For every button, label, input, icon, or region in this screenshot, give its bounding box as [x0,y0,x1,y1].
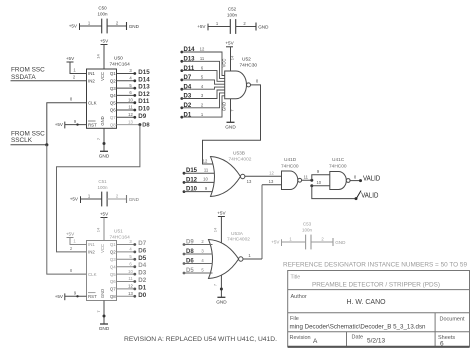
svg-text:U41D: U41D [284,157,297,163]
power +5V for U50 RST [55,122,65,129]
svg-text:RST: RST [88,294,97,299]
wire +5V to U51 IN1 [70,238,87,245]
node D10 [183,187,198,193]
svg-text:11: 11 [204,167,209,172]
power +5V for U51 RST [55,293,65,300]
wire +5V to U50 IN1 [70,62,87,74]
svg-text:U53B: U53B [233,151,245,157]
wire U53B output [245,176,282,184]
node D1 [133,284,146,291]
wire +5V to U51 RST [65,291,87,298]
wire U51 Q1 output [117,244,135,246]
pin 6 of U52 [201,65,204,70]
svg-text:13: 13 [247,179,252,184]
node VALID [359,173,380,182]
node D11 [133,98,149,105]
U50 pin name Q8 [110,122,116,127]
node D12 [133,91,150,98]
svg-text:D5: D5 [138,255,146,262]
pin 3 of U52 [201,93,204,98]
svg-text:10: 10 [128,97,133,102]
node D6 [133,247,146,254]
U51 refdes label [110,229,131,241]
node SSCLK wire [11,143,49,146]
svg-text:74HC164: 74HC164 [110,235,131,241]
power +5V for U50 IN1 [66,56,75,62]
svg-text:U52: U52 [242,57,251,63]
pin 11 of U51 [128,276,133,281]
node D4 [180,84,191,90]
node D13 [180,57,195,63]
svg-text:13: 13 [128,119,133,124]
wire U50 Q5 output [117,102,135,104]
node D14 [180,47,195,53]
svg-text:GND: GND [335,240,346,245]
svg-text:D2: D2 [138,277,146,284]
svg-text:D3: D3 [138,270,146,277]
capacitor C51 [102,192,107,207]
svg-text:D7: D7 [138,240,146,247]
U50 pin name Q7 [110,115,116,120]
wire [107,198,127,200]
svg-text:74HC4002: 74HC4002 [227,237,250,243]
svg-text:D8: D8 [142,122,150,128]
node D14 [133,76,150,83]
node D0 [133,292,146,299]
wire [311,241,333,243]
U50 pin name Q6 [110,108,116,113]
IC U50 74HC164 body [87,69,117,128]
U50 pin name Q1 [110,71,116,76]
pin 5 of U51 [129,254,132,259]
U50 pin name IN2 [88,79,95,84]
svg-text:D0: D0 [138,292,146,299]
U52 VCC pin label [222,59,227,68]
capacitor C53 [306,235,311,250]
svg-text:C52: C52 [228,7,237,12]
svg-text:D4: D4 [138,262,146,269]
wire U53A output [243,253,262,259]
U51 pin name Q1 [110,242,116,247]
wire D1 to U52 pin 1 [182,96,225,117]
wire D9 to U53A pin 2 [184,239,213,245]
svg-text:D9: D9 [138,113,146,120]
title block Sheets label [438,335,455,341]
wire pin 14 VCC U52 [229,47,234,71]
U51 pin name Q7 [110,287,116,292]
node junction 2 [310,184,313,187]
pin 8 label U51 [70,268,73,273]
pin 13 of U51 [128,291,133,296]
wire U51 Q7 output [117,288,135,290]
title block date value [367,338,385,345]
wire [208,26,231,28]
title block Document label [440,317,466,323]
wire U53A GND pin 7 [212,275,223,298]
U50 pin name Q2 [110,79,116,84]
title block title text [312,282,440,289]
wire D8 to U51 IN2 [57,125,140,252]
wire junction to U41C pin 9 [312,169,330,180]
svg-text:12: 12 [200,47,205,52]
wire U51 Q2 output [117,251,135,253]
svg-text:11: 11 [200,56,205,61]
svg-text:6: 6 [440,340,444,347]
svg-text:+5V: +5V [66,232,75,237]
wire SSCLK down to U51 CLK [47,145,87,274]
svg-text:13: 13 [128,291,133,296]
svg-text:Q4: Q4 [110,264,116,269]
pin 11 of U50 [128,105,133,110]
U51 pin name RST [88,293,97,299]
node D5 [183,268,195,274]
svg-text:IN1: IN1 [88,242,95,247]
svg-text:100n: 100n [97,185,108,190]
capacitor C53 label [302,222,313,233]
wire +5V to U50 RST [65,119,87,126]
pin 1 of C52 [216,21,219,26]
svg-text:FROM SSC: FROM SSC [11,67,45,74]
wire U53A output to pin 13 vertical [261,185,263,259]
wire U50 Q2 output [117,80,135,82]
pin 2 of C53 [321,237,324,242]
wire U53A output to U41D pin 13 [262,179,282,185]
power +5V for C50 [69,23,80,30]
svg-text:+5V: +5V [70,197,79,202]
title block revision value [313,338,318,345]
wire U51 Q5 output [117,273,135,275]
ground U50 [99,151,110,158]
wire pin 14 VCC U53A [212,217,221,244]
wire D13 to U52 pin 11 [182,61,225,78]
svg-text:SSDATA: SSDATA [11,74,36,81]
svg-text:14: 14 [212,227,217,232]
U50 VCC pin label [100,72,105,81]
power +5V for U53A VCC [217,211,226,217]
FROM SSC SSDATA label [11,67,45,81]
U50 refdes label [110,56,131,68]
U51 pin name IN2 [88,250,95,255]
node D3 [133,270,146,277]
title block author name [347,299,387,306]
node D7 [180,75,191,81]
wire U52 GND pin 7 [229,99,234,123]
svg-text:10: 10 [203,177,208,182]
pin 1 of C53 [289,237,292,242]
svg-text:Q4: Q4 [110,93,116,98]
svg-text:11: 11 [128,105,133,110]
svg-text:74HC00: 74HC00 [281,164,299,170]
wire [80,25,102,27]
svg-text:10: 10 [128,269,133,274]
wire junction to /VALID [312,186,356,199]
svg-text:12: 12 [128,112,133,117]
wire U51 GND pin 7 [96,301,106,325]
title block Author label [291,294,307,300]
U51 VCC pin label [100,244,105,253]
svg-text:GND: GND [258,24,269,29]
node D13 [133,84,150,91]
pin 10 of U51 [128,269,133,274]
svg-text:Q8: Q8 [110,122,116,127]
svg-text:74HC00: 74HC00 [329,164,347,170]
pin 1 of U52 [201,112,204,117]
wire U50 Q1 output [117,73,135,75]
svg-text:+5V: +5V [225,41,234,46]
pin 1 of C51 [88,194,91,199]
node D7 [133,240,146,247]
pin 12 of U41D [269,170,274,175]
node D1 [180,112,191,118]
svg-text:Q2: Q2 [110,79,116,84]
pin 2 of C50 [116,21,119,26]
U50 pin name RST [88,121,97,127]
svg-text:IN1: IN1 [88,71,95,76]
svg-text:D13: D13 [138,84,150,91]
pin 4 of U50 [129,76,132,81]
pin 11 of U52 [200,56,205,61]
ground U53A [216,297,227,304]
title block Revision label [290,335,311,341]
title block table [288,271,470,347]
svg-text:12: 12 [269,170,274,175]
ground for C52 [256,23,269,31]
wire [282,241,306,243]
U52 refdes label [240,57,258,69]
wire D6 to U53A pin 4 [184,258,213,264]
svg-text:Q5: Q5 [110,100,116,105]
pin 12 of U50 [128,112,133,117]
FROM SSC SSCLK label [11,130,45,144]
gate U53A 74HC4002 body [209,240,244,279]
U51 pin name Q4 [110,264,116,269]
U51 pin name CLK [88,272,97,277]
svg-text:+5V: +5V [271,240,280,245]
pin 2 of C52 [243,21,246,26]
svg-text:Date: Date [352,334,364,340]
title block sheets value [440,340,444,347]
U53B refdes label [229,151,252,163]
wire D2 to U52 pin 2 [182,93,225,108]
node D3 [180,94,191,100]
node D15 [133,69,150,76]
U51 pin name Q2 [110,250,116,255]
node D9 [133,113,146,120]
ground for C50 [127,22,140,30]
wire U41D output [301,174,312,180]
capacitor C50 [102,19,107,34]
wire [236,26,257,28]
text reference designator note [283,262,467,269]
svg-text:U51: U51 [114,229,123,235]
wire U52 output to U53B pin 12 [203,85,261,164]
svg-text:D1: D1 [138,284,146,291]
node D2 [133,277,146,284]
pin 12 of U51 [128,284,133,289]
svg-text:+5V: +5V [217,211,226,216]
svg-text:RST: RST [88,122,97,127]
pin 13 of U50 [128,119,133,124]
svg-text:GND: GND [100,116,105,125]
ground U52 [225,122,236,129]
pin 2 label U51 [70,246,73,251]
svg-text:GND: GND [99,326,110,331]
svg-text:SSCLK: SSCLK [11,137,33,144]
pin 6 of U50 [129,90,132,95]
svg-text:74HC164: 74HC164 [110,62,131,68]
svg-text:Q3: Q3 [110,257,116,262]
node SSDATA wire [11,74,87,81]
svg-text:Q2: Q2 [110,250,116,255]
wire U50 Q3 output [117,87,135,89]
svg-text:Q6: Q6 [110,279,116,284]
svg-text:C53: C53 [303,222,312,227]
svg-text:Document: Document [440,317,466,323]
svg-text:Q1: Q1 [110,242,116,247]
svg-text:100n: 100n [97,12,108,17]
U53A refdes label [227,231,250,243]
svg-text:REVISION A: REPLACED U54 WITH: REVISION A: REPLACED U54 WITH U41C, U41D… [124,336,277,343]
svg-text:12: 12 [128,284,133,289]
svg-text:+5V: +5V [69,24,78,29]
IC U51 74HC164 body [87,241,117,301]
title block Title label [291,275,301,281]
svg-text:Q7: Q7 [110,115,116,120]
pin 6 of U51 [129,261,132,266]
svg-text:GND: GND [100,289,105,298]
pin 5 of U50 [129,83,132,88]
node junction U41D out [310,179,313,182]
pin 4 of U52 [201,84,204,89]
U50 GND pin label [100,116,105,125]
U50 pin name Q4 [110,93,116,98]
pin 3 of U51 [129,239,132,244]
svg-text:D6: D6 [138,247,146,254]
wire U51 Q8 output [117,295,135,297]
U51 pin name Q5 [110,272,116,277]
wire [81,198,102,200]
svg-text:U50: U50 [114,56,123,62]
power +5V for U52 VCC [225,41,234,47]
svg-text:74HC30: 74HC30 [240,63,258,69]
wire U50 Q7 output [117,116,135,118]
gate U53B 74HC4002 body [211,157,245,197]
pin 2 of U52 [201,103,204,108]
svg-text:Q8: Q8 [110,294,116,299]
gate U41C 74HC00 body [330,172,350,190]
capacitor C52 label [227,7,238,18]
node D6 [183,259,195,265]
text revision note [124,336,277,343]
node D9 [183,240,195,246]
title block Date label [352,334,364,340]
pin 12 of U52 [200,47,205,52]
power +5V for C53 [271,239,281,246]
U51 pin name Q8 [110,294,116,299]
ground for C53 [333,238,346,246]
wire U51 Q6 output [117,281,135,283]
node D12 [183,177,198,183]
U50 pin name Q5 [110,100,116,105]
svg-text:100n: 100n [302,228,313,233]
capacitor C50 label [97,6,108,17]
svg-text:+5V: +5V [100,212,109,217]
svg-text:5/2/13: 5/2/13 [367,338,385,345]
svg-text:U41C: U41C [332,157,345,163]
pin 1 of C50 [88,21,91,26]
pin 2 of C51 [116,194,119,199]
svg-text:+5V: +5V [55,294,64,299]
wire pin 14 VCC U50 [96,45,105,70]
wire D4 to U52 pin 4 [182,87,225,89]
svg-text:A: A [313,338,318,345]
node D8 [138,122,150,128]
wire D7 to U52 pin 5 [182,80,225,84]
svg-text:H. W. CANO: H. W. CANO [347,299,387,306]
wire pin 14 VCC U51 [96,218,105,241]
svg-text:14: 14 [96,54,101,59]
op-amp U52 74HC30 gate body [225,71,251,99]
svg-text:VCC: VCC [222,59,227,68]
ground U51 [99,324,110,331]
power +5V for U50 VCC [100,39,109,45]
svg-text:14: 14 [96,227,101,232]
svg-text:CLK: CLK [88,100,97,105]
wire U50 GND pin 7 [96,128,106,151]
wire D3 to U52 pin 3 [182,90,225,99]
pin 3 of U50 [129,68,132,73]
U41C refdes label [329,157,347,170]
svg-text:+5V: +5V [197,24,206,29]
svg-text:GND: GND [99,154,110,159]
svg-text:GND: GND [129,197,140,202]
node /VALID [355,191,379,201]
svg-text:D12: D12 [138,91,150,98]
svg-text:VCC: VCC [100,244,105,253]
svg-text:+5V: +5V [55,122,64,127]
svg-text:Q1: Q1 [110,71,116,76]
svg-text:Author: Author [291,294,307,300]
U41D refdes label [281,157,299,170]
svg-text:VCC: VCC [100,72,105,81]
node D2 [180,103,191,109]
U51 GND pin label [100,289,105,298]
wire U51 Q4 output [117,266,135,268]
wire D10 to U53B pin 9 [184,186,213,192]
svg-text:GND: GND [129,24,140,29]
svg-text:10: 10 [316,180,321,185]
wire D14 to U52 pin 12 [182,52,225,76]
svg-text:+5V: +5V [66,56,75,61]
title block file name [290,323,426,330]
node D5 [133,255,146,262]
wire U50 Q8 output [117,124,140,126]
svg-text:74HC4002: 74HC4002 [229,157,252,163]
node D8 [183,249,195,255]
ground for C51 [127,195,140,203]
U51 pin name Q3 [110,257,116,262]
gate U41D 74HC00 body [282,171,302,190]
svg-text:11: 11 [304,174,309,179]
pin 10 of U50 [128,97,133,102]
U51 pin name Q6 [110,279,116,284]
wire SSCLK to U50 CLK [47,97,87,145]
U50 pin name IN1 [88,71,95,76]
wire junction to U41C pin 10 [312,180,330,186]
power +5V for C51 [70,196,81,203]
svg-text:CLK: CLK [88,272,97,277]
svg-text:D14: D14 [138,76,150,83]
